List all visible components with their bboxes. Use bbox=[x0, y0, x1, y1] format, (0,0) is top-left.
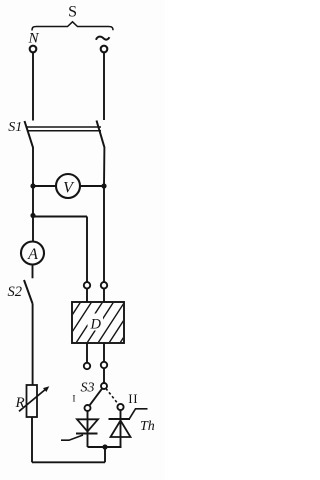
terminal ~ bbox=[101, 46, 108, 53]
junction dot left V bbox=[30, 183, 35, 188]
junction dot branch to D bbox=[30, 213, 35, 218]
resistor R body bbox=[27, 385, 38, 417]
wire right terminal to S1 bbox=[103, 52, 105, 120]
junction dot right V bbox=[101, 183, 106, 188]
wire left terminal to S1 bbox=[32, 52, 34, 120]
terminal N bbox=[30, 46, 37, 53]
switch S1 coupling bar bbox=[27, 127, 102, 131]
svg-text:A: A bbox=[27, 246, 38, 263]
wire branch to D horizontal bbox=[33, 216, 87, 218]
wire R to bottom bus bbox=[31, 417, 33, 462]
svg-text:S2: S2 bbox=[8, 284, 23, 300]
thyristor 1 gate bbox=[61, 435, 83, 440]
svg-text:N: N bbox=[28, 31, 40, 47]
switch S2 blade bbox=[24, 280, 33, 304]
svg-text:S3: S3 bbox=[81, 381, 95, 396]
junction dot bottom bus bbox=[102, 444, 107, 449]
control device D box bbox=[72, 302, 124, 343]
D output terminal right bbox=[101, 362, 107, 368]
wire bus drop bbox=[104, 447, 106, 462]
wire stubs terminals to D box bbox=[87, 289, 104, 303]
thyristor 1 triangle bbox=[77, 419, 98, 431]
thyristor 2 cathode bar bbox=[109, 418, 131, 420]
wire stubs D box to output terminals bbox=[87, 343, 104, 363]
wire ammeter to S2 bbox=[32, 265, 34, 279]
svg-text:II: II bbox=[128, 391, 138, 406]
selector S3 dashed link to II bbox=[106, 388, 119, 404]
wire S2 to R bbox=[32, 304, 34, 386]
node ~ label bbox=[96, 37, 109, 40]
switch S1 left blade bbox=[25, 121, 34, 148]
D output terminal left (open) bbox=[84, 363, 90, 369]
contact II circle bbox=[117, 404, 123, 410]
D label white halo bbox=[88, 314, 104, 331]
switch S1 right blade bbox=[97, 121, 105, 149]
thyristor 2 triangle bbox=[111, 421, 131, 438]
resistor R variable arrow bbox=[19, 389, 47, 412]
wire voltmeter branch right bbox=[80, 185, 104, 187]
svg-text:I: I bbox=[72, 394, 75, 404]
thyristor 1 cathode bar bbox=[76, 433, 98, 435]
wire D to S3 pivot bbox=[103, 368, 105, 383]
svg-text:Th: Th bbox=[140, 419, 155, 434]
wire contact I through thyristor 1 bbox=[87, 411, 89, 447]
D input terminal left bbox=[84, 282, 90, 288]
thyristor 2 gate bbox=[129, 409, 148, 420]
D box hatching bbox=[42, 301, 147, 344]
ammeter A bbox=[21, 242, 44, 265]
svg-text:S1: S1 bbox=[8, 120, 22, 135]
wire branch to D vertical bbox=[86, 217, 88, 283]
voltmeter V bbox=[56, 174, 80, 198]
selector S3 blade to I bbox=[89, 388, 102, 405]
wire S1 to ammeter (left) bbox=[32, 147, 34, 242]
selector S3 pivot bbox=[101, 383, 107, 389]
brace over terminals bbox=[32, 22, 113, 31]
svg-text:S: S bbox=[68, 4, 77, 21]
bottom return wire to R bbox=[32, 461, 105, 463]
bottom bus between thyristors bbox=[88, 446, 122, 448]
D input terminal right bbox=[101, 282, 107, 288]
wire voltmeter branch left bbox=[33, 185, 56, 187]
svg-text:D: D bbox=[90, 317, 102, 333]
wire S1 down right side bbox=[103, 148, 105, 282]
wire contact II through thyristor 2 bbox=[120, 410, 122, 447]
contact I circle bbox=[85, 405, 91, 411]
